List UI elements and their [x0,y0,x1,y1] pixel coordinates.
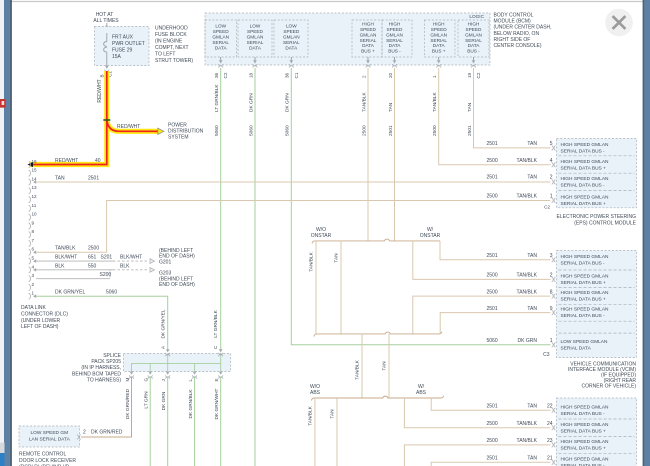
svg-text:DK GRN/RED: DK GRN/RED [125,388,131,419]
svg-text:TAN/BLK: TAN/BLK [361,92,367,112]
svg-text:LOGIC: LOGIC [469,14,484,19]
svg-text:2500: 2500 [487,273,498,279]
svg-text:BUS +: BUS + [432,49,446,54]
svg-text:SERIAL DATA BUS -: SERIAL DATA BUS - [561,313,606,319]
module pin 1: LOW SPEED GMLAN SERIAL DATA [552,339,608,352]
svg-text:SPEED: SPEED [283,29,300,34]
svg-text:BLK/WHT: BLK/WHT [55,254,77,260]
VCIM module name [568,362,636,390]
svg-text:2500: 2500 [361,125,367,136]
module pin 3: HIGH SPEED GMLAN SERIAL DATA BUS - [552,254,609,267]
svg-text:7: 7 [32,238,35,243]
svg-text:RED/WHT: RED/WHT [117,124,140,130]
module pin 21: HIGH SPEED GMLAN SERIAL DATA BUS - [552,456,609,466]
svg-text:SERIAL DATA BUS -: SERIAL DATA BUS - [561,411,606,417]
svg-text:E: E [214,378,219,381]
svg-text:2501: 2501 [487,141,498,147]
svg-text:DK GRN: DK GRN [518,338,538,344]
wire TAN/BLK 2500 from BCM pin 1 to EPS pin 4 [439,68,553,165]
svg-text:LOW SPEED GMLAN: LOW SPEED GMLAN [561,339,608,345]
svg-text:(EPS) CONTROL MODULE: (EPS) CONTROL MODULE [574,221,636,227]
label W/O ABS [310,384,321,396]
svg-text:DK GRN/BLK: DK GRN/BLK [188,389,194,419]
wire LT GRN/BLK 5060 vertical (BCM to splice C) [220,68,222,350]
svg-text:HIGH SPEED GMLAN: HIGH SPEED GMLAN [561,159,610,165]
svg-text:DK GRN: DK GRN [161,391,167,410]
module pin 8: HIGH SPEED GMLAN SERIAL DATA BUS + [552,290,609,303]
module pin 2: HIGH SPEED GMLAN SERIAL DATA BUS - [552,176,609,189]
svg-text:TAN: TAN [527,141,537,147]
wire label TAN/BLK 2500 [361,92,367,136]
svg-text:SERIAL: SERIAL [430,38,447,43]
wire TAN 2501 DLC pin 14 to EPS pin 2 [33,174,553,183]
wire label TAN 2501 [467,102,473,136]
label LT GRN/BLK vertical with pin C [213,309,219,349]
svg-text:SERIAL DATA BUS -: SERIAL DATA BUS - [561,183,606,189]
svg-text:2500: 2500 [487,438,498,444]
wire TAN between bracket2 and bracket3 [382,334,389,398]
svg-text:BLK/WHT: BLK/WHT [120,254,142,260]
svg-text:LAN SERIAL DATA: LAN SERIAL DATA [29,437,71,443]
svg-text:TAN: TAN [330,409,336,419]
module pin 24: HIGH SPEED GMLAN SERIAL DATA BUS + [552,422,609,435]
svg-text:TAN/BLK: TAN/BLK [517,289,538,295]
label W/O ONSTAR [311,227,332,239]
svg-text:2: 2 [83,430,86,436]
svg-text:HIGH SPEED GMLAN: HIGH SPEED GMLAN [561,254,610,260]
power source label HOT AT ALL TIMES [93,12,119,24]
svg-text:SERIAL DATA BUS +: SERIAL DATA BUS + [561,428,607,434]
svg-text:4: 4 [32,264,35,269]
svg-text:G: G [144,378,149,382]
label DK GRN/YEL vertical with pin A [161,309,167,349]
wire TAN 2501 from BCM pin 20 to ladder [394,68,396,241]
svg-text:2501: 2501 [467,125,473,136]
svg-text:DATA: DATA [215,46,228,51]
svg-text:CENTER CONSOLE): CENTER CONSOLE) [494,43,542,49]
svg-text:BUS -: BUS - [388,49,401,54]
svg-text:15: 15 [32,168,38,173]
module pin 1: HIGH SPEED GMLAN SERIAL DATA BUS + [552,194,609,207]
svg-text:2501: 2501 [487,253,498,259]
svg-text:S201: S201 [101,254,113,260]
svg-text:BUS +: BUS + [361,49,375,54]
BCM pin 18 [248,57,257,78]
splice pack SP205 box [123,354,230,372]
svg-text:L: L [188,379,193,382]
svg-text:8: 8 [32,229,35,234]
svg-text:2501: 2501 [487,456,498,462]
svg-text:C2: C2 [223,72,228,78]
RCDLR pin 2 [77,430,123,440]
module RCDLR low speed box [19,426,80,447]
wire BLK 550 DLC pin 4 to ground G203 [33,263,147,271]
svg-text:LOW SPEED GM: LOW SPEED GM [31,430,69,436]
svg-text:2501: 2501 [487,174,498,180]
svg-text:HIGH: HIGH [362,21,374,26]
svg-text:SPEED: SPEED [431,27,448,32]
svg-text:DATA: DATA [285,46,298,51]
svg-text:13: 13 [32,185,38,190]
svg-text:1: 1 [432,75,437,78]
svg-text:TAN: TAN [527,306,537,312]
svg-text:TAN: TAN [334,253,340,263]
svg-text:S200: S200 [100,272,112,278]
svg-text:550: 550 [88,263,97,269]
DLC location text [21,305,68,330]
BCM terminal box 6 [425,20,456,57]
svg-text:J: J [161,379,166,381]
svg-text:DATA: DATA [362,43,375,48]
svg-text:HIGH SPEED GMLAN: HIGH SPEED GMLAN [561,290,610,296]
svg-text:GMLAN: GMLAN [465,32,482,37]
svg-text:SERIAL: SERIAL [386,38,403,43]
svg-text:1: 1 [32,291,35,296]
svg-text:C2: C2 [476,72,481,78]
svg-text:SERIAL: SERIAL [465,38,482,43]
module pin 2: HIGH SPEED GMLAN SERIAL DATA BUS + [552,274,609,287]
bus junction bracket 2 [314,332,442,337]
splice SP205 internal bus [132,354,221,372]
svg-text:LT GRN/BLK: LT GRN/BLK [213,309,219,337]
splice pin L wire DK GRN/BLK [188,372,197,466]
svg-text:HIGH: HIGH [389,21,401,26]
svg-text:ALL TIMES: ALL TIMES [93,18,119,24]
wire 5060 DK GRN 1 C3 (to VCIM low speed) [487,338,553,358]
svg-text:REMOTE CONTROL: REMOTE CONTROL [19,452,66,458]
svg-text:DATA LINK: DATA LINK [21,305,46,311]
right sidebar strip [643,0,645,466]
svg-text:BELOW RADIO, ON: BELOW RADIO, ON [494,31,540,37]
fuse F29 FRT AUX PWR OUTLET 15A [104,33,145,66]
svg-text:BODY CONTROL: BODY CONTROL [494,13,534,19]
svg-text:TAN: TAN [527,403,537,409]
svg-text:DATA: DATA [468,43,481,48]
svg-text:G201: G201 [159,259,171,265]
svg-text:ABS: ABS [310,390,321,396]
svg-text:2501: 2501 [487,403,498,409]
svg-text:DK GRN: DK GRN [248,93,254,112]
svg-text:CORNER OF VEHICLE): CORNER OF VEHICLE) [582,384,637,390]
svg-text:2501: 2501 [88,175,99,181]
ground G203 [150,267,195,287]
svg-text:TAN: TAN [527,253,537,259]
svg-text:3: 3 [32,273,35,278]
svg-text:20: 20 [388,72,393,78]
svg-text:TAN/BLK: TAN/BLK [517,194,538,200]
wire DK GRN/YEL 5060 DLC pin 1 to splice A [33,290,168,350]
module pin 5: HIGH SPEED GMLAN SERIAL DATA BUS - [552,142,609,155]
svg-text:6: 6 [32,247,35,252]
label 16 RED/WHT 40 [55,158,101,164]
svg-text:TAN: TAN [467,102,473,112]
svg-text:12: 12 [32,194,38,199]
svg-text:DOOR LOCK RECEIVER: DOOR LOCK RECEIVER [19,458,76,464]
svg-text:LOW: LOW [250,24,261,29]
wire 2500 TAN/BLK 8 (VCIM pin 8 to bracket2) [413,289,553,334]
svg-text:2501: 2501 [487,306,498,312]
svg-text:2: 2 [32,282,35,287]
svg-text:BEHIND BCM TAPED: BEHIND BCM TAPED [72,371,121,377]
svg-text:TAN/BLK: TAN/BLK [355,359,361,379]
svg-text:SERIAL: SERIAL [212,40,229,45]
svg-text:ONSTAR: ONSTAR [311,233,332,239]
svg-text:HIGH SPEED GMLAN: HIGH SPEED GMLAN [561,307,610,313]
svg-text:RED/WHT: RED/WHT [55,158,78,164]
svg-text:DK GRN/YEL: DK GRN/YEL [55,290,86,296]
svg-text:DK GRN/YEL: DK GRN/YEL [161,309,167,338]
svg-text:GMLAN: GMLAN [430,32,447,37]
svg-text:23: 23 [547,438,553,444]
svg-text:SPEED: SPEED [387,27,404,32]
bus junction bracket 1 [312,239,440,243]
svg-text:HIGH SPEED GMLAN: HIGH SPEED GMLAN [561,422,610,428]
svg-text:36: 36 [285,72,290,78]
svg-text:TAN/BLK: TAN/BLK [432,92,438,112]
left sidebar strip [0,0,4,466]
wire RED/WHT 40 highlighted (fuse to DLC pin 16 and Power Distribution) [30,71,158,165]
wire 2500 TAN/BLK 2 (bracket1 to VCIM pin 2) [413,241,553,280]
svg-text:GMLAN: GMLAN [360,32,377,37]
svg-text:TAN/BLK: TAN/BLK [517,421,538,427]
svg-text:TAN/BLK: TAN/BLK [517,158,538,164]
svg-text:END OF DASH): END OF DASH) [159,282,195,288]
svg-text:18: 18 [248,72,253,78]
bottom-left page fragments [0,443,5,454]
svg-text:ELECTRONIC POWER STEERING: ELECTRONIC POWER STEERING [557,214,637,220]
splice pin G wire LT GRN [144,372,153,466]
wire DK GRN 5060 vertical no3 (BCM to VCIM) [291,68,550,345]
svg-text:SERIAL DATA BUS +: SERIAL DATA BUS + [561,165,607,171]
wire 2500 TAN/BLK 23 (EBCM pin 23 downward) [404,438,552,466]
svg-text:BLK: BLK [55,263,65,269]
BCM location text [494,13,552,50]
svg-text:HIGH SPEED GMLAN: HIGH SPEED GMLAN [561,142,610,148]
svg-text:TAN/BLK: TAN/BLK [55,246,76,252]
svg-text:ONSTAR: ONSTAR [420,233,441,239]
top hairline [0,1,650,3]
fuse block location text [155,26,193,64]
svg-text:651: 651 [88,254,97,260]
BCM terminal box 1 [205,20,237,57]
pin B C1 of fuse block [99,66,112,78]
wire 2501 TAN 9 (VCIM pin 9 to bracket2) [440,306,553,334]
svg-text:SERIAL DATA BUS -: SERIAL DATA BUS - [561,149,606,155]
wire label TAN/BLK 2500 [432,92,438,136]
svg-text:SERIAL: SERIAL [247,40,264,45]
svg-text:2500: 2500 [487,421,498,427]
BCM pin 20 [388,57,397,78]
BCM pin 2 [361,57,370,78]
wire DK GRN 5060 vertical no2 (BCM downward) [254,68,256,466]
svg-text:POWER: POWER [168,123,187,129]
wire TAN/BLK branch below bracket1 [309,241,316,334]
svg-text:DK GRN/WHT: DK GRN/WHT [214,388,220,419]
svg-text:M: M [125,378,130,382]
svg-text:SPLICE: SPLICE [103,353,121,359]
svg-text:FUSE 29: FUSE 29 [112,48,133,54]
svg-text:TAN: TAN [388,102,394,112]
svg-text:5060: 5060 [285,125,291,136]
wire TAN below bracket3 [330,398,337,466]
svg-text:2500: 2500 [487,289,498,295]
splice pin M wire DK GRN/RED [81,372,134,437]
svg-text:1: 1 [550,194,553,200]
svg-text:FUSE BLOCK: FUSE BLOCK [155,32,187,38]
svg-text:5060: 5060 [487,338,498,344]
svg-text:TAN: TAN [527,456,537,462]
svg-text:HIGH SPEED GMLAN: HIGH SPEED GMLAN [561,274,610,280]
svg-text:SPEED: SPEED [213,29,230,34]
arrow into Power Distribution System [158,128,164,134]
svg-text:5060: 5060 [214,125,220,136]
EPS module name [557,214,637,227]
svg-text:(UNDER CENTER DASH,: (UNDER CENTER DASH, [494,25,552,31]
svg-text:11: 11 [32,203,37,208]
wire TAN branch below bracket1 [334,241,341,334]
RCDLR name text [19,452,76,466]
underhood fuse block box [95,27,150,66]
power distribution system text [168,123,204,141]
wire 2501 TAN 3 (bracket1 to VCIM pin 3) [440,241,553,260]
svg-text:HIGH SPEED GMLAN: HIGH SPEED GMLAN [561,404,610,410]
svg-text:TAN/BLK: TAN/BLK [309,251,315,271]
svg-text:COMPT, NEXT: COMPT, NEXT [155,45,189,51]
svg-text:TAN/BLK: TAN/BLK [308,405,314,425]
junction tick on RED/WHT wire [103,119,110,121]
svg-text:DK GRN: DK GRN [285,93,291,112]
svg-text:(IN ENGINE: (IN ENGINE [155,38,183,44]
module EBCM ABS box [557,398,637,466]
wire 2501 TAN 22 (bracket3 to EBCM pin 22) [431,398,553,410]
svg-text:15A: 15A [112,54,122,60]
svg-text:DATA: DATA [433,43,446,48]
wire TAN/BLK below bracket3 [308,398,315,466]
svg-text:LOW: LOW [215,24,226,29]
svg-text:HIGH SPEED GMLAN: HIGH SPEED GMLAN [561,456,610,462]
svg-text:(IN IP HARNESS,: (IN IP HARNESS, [81,365,121,371]
module pin 4: HIGH SPEED GMLAN SERIAL DATA BUS + [552,159,609,172]
splice pin E wire DK GRN/WHT [214,372,223,466]
BCM pin 19 C2 [467,57,481,79]
svg-text:2500: 2500 [487,158,498,164]
wire label DK GRN 5060 [285,93,291,136]
svg-text:BLK: BLK [120,263,130,269]
svg-text:DK GRN/RED: DK GRN/RED [91,430,123,436]
svg-text:LT GRN/BLK: LT GRN/BLK [214,84,220,112]
wire TAN 2501 from BCM pin 19 to EPS pin 5 [474,68,553,148]
label W/ ABS [416,384,427,396]
svg-text:SERIAL DATA BUS +: SERIAL DATA BUS + [561,297,607,303]
module BCM outer box [205,13,490,65]
svg-text:TAN: TAN [382,361,388,371]
svg-text:DISTRIBUTION: DISTRIBUTION [168,129,204,135]
svg-text:2500: 2500 [88,246,99,252]
svg-text:LT GRN: LT GRN [144,391,150,409]
arrow into DLC pin 16 [28,162,34,167]
label W/ ONSTAR [420,227,441,239]
svg-text:DATA: DATA [389,43,402,48]
BCM terminal box 2 [238,20,272,57]
svg-text:5060: 5060 [106,290,117,296]
svg-text:2: 2 [361,75,366,78]
svg-text:21: 21 [547,456,553,462]
svg-text:MODULE (BCM): MODULE (BCM) [494,19,532,25]
bus junction bracket 3 [311,396,443,401]
BCM pin 36 C1 [285,57,299,79]
wire label TAN 2501 [388,102,394,136]
connector DLC pins 16-1 [29,159,37,299]
module pin 22: HIGH SPEED GMLAN SERIAL DATA BUS - [552,404,609,417]
svg-text:24: 24 [547,421,553,427]
svg-text:9: 9 [32,220,35,225]
svg-text:GMLAN: GMLAN [283,35,300,40]
module VCIM box [557,251,637,358]
ground G201 [150,248,195,265]
svg-text:PACK SP205: PACK SP205 [91,359,121,365]
close button [605,9,633,37]
BCM terminal box 5 [382,20,412,57]
svg-text:SPEED: SPEED [466,27,483,32]
svg-text:SERIAL DATA BUS +: SERIAL DATA BUS + [561,201,607,207]
wire 2501 TAN 21 (EBCM pin 21 downward) [431,456,553,466]
wire stub into fuse block [105,23,109,33]
splice pin J wire DK GRN [161,372,170,466]
svg-text:GMLAN: GMLAN [212,35,229,40]
BCM terminal box 4 [352,20,382,57]
svg-text:HIGH: HIGH [433,21,445,26]
svg-text:SPEED: SPEED [247,29,264,34]
svg-text:HIGH SPEED GMLAN: HIGH SPEED GMLAN [561,176,610,182]
svg-text:2501: 2501 [388,125,394,136]
svg-text:TAN/BLK: TAN/BLK [517,273,538,279]
svg-text:SERIAL DATA BUS +: SERIAL DATA BUS + [561,446,607,452]
svg-text:C1: C1 [294,72,299,78]
svg-text:16: 16 [32,159,38,164]
svg-text:CONNECTOR (DLC): CONNECTOR (DLC) [21,311,68,317]
svg-text:SERIAL: SERIAL [360,38,377,43]
svg-text:ABS: ABS [416,390,427,396]
svg-text:22: 22 [547,403,553,409]
svg-text:2500: 2500 [432,125,438,136]
svg-text:C3: C3 [543,352,550,358]
wire TAN/BLK 2500 DLC pin 6 to EPS pin 1 [33,194,553,254]
svg-text:SPEED: SPEED [360,27,377,32]
svg-text:HIGH: HIGH [468,21,480,26]
BCM pin 1 [432,57,441,78]
svg-text:(UNDER LOWER: (UNDER LOWER [21,318,61,324]
svg-text:RED/WHT: RED/WHT [97,79,103,102]
splice pin C entry [219,349,223,356]
svg-text:HIGH SPEED GMLAN: HIGH SPEED GMLAN [561,439,610,445]
svg-text:SYSTEM: SYSTEM [168,135,189,141]
wire 2500 TAN/BLK 24 (bracket3 to EBCM pin 24) [404,398,552,428]
svg-text:C2: C2 [544,204,550,209]
svg-text:SERIAL: SERIAL [283,40,300,45]
svg-text:HIGH SPEED GMLAN: HIGH SPEED GMLAN [561,194,610,200]
module pin 23: HIGH SPEED GMLAN SERIAL DATA BUS + [552,439,609,452]
svg-text:40: 40 [95,158,101,164]
svg-text:BUS -: BUS - [467,49,480,54]
svg-text:LOW: LOW [286,24,297,29]
splice SP205 text [72,353,122,383]
svg-text:TAN: TAN [527,174,537,180]
wire TAN/BLK between bracket2 and bracket3 [355,334,362,398]
svg-text:10: 10 [32,212,38,217]
svg-text:UNDERHOOD: UNDERHOOD [155,26,188,32]
svg-text:LEFT OF DASH): LEFT OF DASH) [21,324,59,330]
BCM pin 36 C2 [214,57,228,79]
